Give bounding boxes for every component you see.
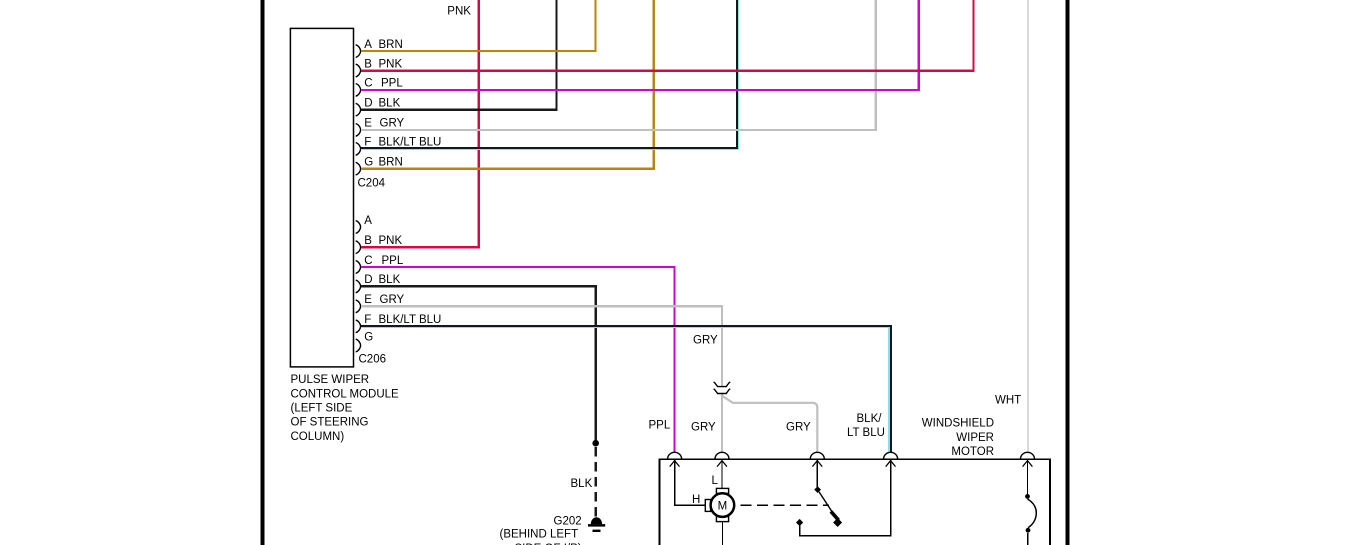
entry arrows: [670, 461, 1033, 467]
C204 pin A socket: [356, 45, 361, 58]
svg-text:WINDSHIELD: WINDSHIELD: [922, 418, 994, 430]
mechanical linkage dashed: [740, 504, 829, 506]
svg-text:F: F: [364, 137, 371, 149]
svg-text:A: A: [364, 39, 372, 51]
svg-text:G: G: [364, 332, 373, 344]
svg-text:F: F: [364, 314, 371, 326]
svg-text:BLK/LT BLU: BLK/LT BLU: [379, 314, 442, 326]
wire PPL C206-C horizontal: [361, 266, 676, 268]
svg-text:C: C: [364, 255, 372, 267]
svg-text:BLK: BLK: [379, 274, 401, 286]
C204 pin C socket: [356, 84, 361, 97]
svg-text:BRN: BRN: [379, 39, 403, 51]
svg-text:PPL: PPL: [381, 78, 403, 90]
junction dot on BLK wire: [592, 440, 599, 447]
svg-text:C: C: [364, 78, 372, 90]
wire BLK/LT BLU C206-F horizontal lt blue stripe: [361, 327, 890, 329]
svg-text:(BEHIND LEFT: (BEHIND LEFT: [500, 529, 579, 541]
svg-text:GRY: GRY: [380, 294, 405, 306]
svg-text:E: E: [364, 294, 372, 306]
dashed BLK wire to ground: [594, 447, 597, 517]
C204 wire colour labels: [379, 39, 442, 169]
ground G202 symbol: [588, 517, 605, 532]
switch fixed contact: [796, 519, 803, 526]
wire BLK/LT BLU C204-F horizontal lt blue stripe: [361, 149, 739, 151]
wire BLK/LT BLU C206-F vertical black stripe: [890, 325, 892, 452]
cam switch lower lead: [1027, 533, 1029, 545]
switch blade: [819, 492, 833, 513]
wire GRY below inline connector: [721, 394, 723, 452]
svg-text:COLUMN): COLUMN): [291, 431, 345, 443]
svg-text:PNK: PNK: [379, 58, 403, 70]
svg-text:D: D: [364, 98, 372, 110]
svg-text:GRY: GRY: [693, 334, 718, 346]
wire PNK vertical trunk to C206-B: [478, 0, 480, 247]
svg-text:PNK: PNK: [379, 235, 403, 247]
stem BLK/LT BLU to switch contact: [800, 459, 891, 536]
svg-text:GRY: GRY: [380, 118, 405, 130]
svg-text:PULSE WIPER: PULSE WIPER: [291, 374, 370, 386]
svg-text:BLK/LT BLU: BLK/LT BLU: [379, 137, 442, 149]
svg-text:H: H: [692, 494, 700, 506]
C204 pin E socket: [356, 124, 361, 137]
entry bump BLK/LT BLU: [884, 452, 898, 459]
svg-text:G: G: [364, 157, 373, 169]
C206 pin B socket: [356, 241, 361, 254]
svg-text:D: D: [364, 274, 372, 286]
entry bump GRY1: [715, 452, 729, 459]
cam switch lower dot: [1026, 528, 1031, 533]
svg-text:B: B: [364, 58, 372, 70]
wire BLK C204-D horizontal: [361, 109, 558, 111]
C206 pin C socket: [356, 261, 361, 274]
left page border: [261, 0, 265, 545]
svg-text:BRN: BRN: [379, 157, 403, 169]
svg-text:GRY: GRY: [691, 421, 716, 433]
wire BLK C206-D vertical solid segment: [595, 286, 597, 441]
svg-text:CONTROL MODULE: CONTROL MODULE: [291, 388, 400, 400]
svg-text:WHT: WHT: [995, 394, 1021, 406]
svg-text:BLK: BLK: [379, 98, 401, 110]
module caption text: [291, 374, 400, 443]
C204 pin G socket: [356, 162, 361, 175]
C204 pin letters: [364, 39, 373, 169]
motor box outline: [660, 459, 1051, 545]
svg-text:PPL: PPL: [382, 255, 404, 267]
C206 pin letters: [364, 215, 373, 344]
wire BLK/LT BLU C206-F horizontal black stripe: [361, 325, 892, 327]
svg-text:E: E: [364, 118, 372, 130]
wire BLK C204-D vertical: [555, 0, 557, 110]
svg-text:MOTOR: MOTOR: [951, 446, 994, 458]
motor M1 armature circle: [711, 493, 735, 517]
wire GRY C206-E horizontal: [361, 305, 723, 307]
wire PPL C204-C horizontal: [361, 89, 920, 91]
wire GRY branch to second motor pin: [722, 394, 817, 452]
wire BLK/LT BLU C204-F vertical black stripe: [736, 0, 738, 149]
svg-text:BLK: BLK: [571, 478, 593, 490]
pulse wiper control module box U1: [290, 28, 353, 367]
entry bump PPL: [668, 452, 682, 459]
svg-text:WIPER: WIPER: [956, 432, 994, 444]
C206 pin D socket: [356, 280, 361, 293]
wire PNK C204-B horizontal: [361, 70, 975, 72]
svg-text:OF STEERING: OF STEERING: [291, 417, 369, 429]
svg-text:C204: C204: [358, 178, 386, 190]
internal stems: [675, 459, 1028, 545]
C206 pin A socket: [356, 221, 361, 234]
motor M1 top brush: [716, 488, 728, 493]
svg-text:A: A: [364, 215, 372, 227]
C206 pin G socket: [356, 339, 361, 352]
svg-text:GRY: GRY: [786, 421, 811, 433]
switch pivot contact: [814, 486, 821, 493]
cam switch upper dot: [1025, 494, 1030, 499]
svg-text:B: B: [364, 235, 372, 247]
wire BRN C204-A vertical: [594, 0, 596, 51]
entry bump GRY2: [810, 452, 824, 459]
inline connector on GRY wire: [714, 382, 731, 394]
wire BLK/LT BLU C206-F vertical lt blue stripe: [888, 327, 890, 452]
svg-text:L: L: [712, 475, 719, 487]
C206 pin E socket: [356, 300, 361, 313]
wire BLK C206-D horizontal: [361, 285, 597, 287]
motor M1 bottom brush: [716, 517, 728, 522]
wire WHT vertical to motor: [1027, 0, 1029, 452]
wire BRN C204-A horizontal: [361, 50, 597, 52]
C206 wire colour labels: [379, 235, 442, 326]
svg-text:G202: G202: [554, 516, 582, 528]
wire BRN C204-G vertical: [653, 0, 655, 169]
svg-text:LT BLU: LT BLU: [847, 427, 885, 439]
wire GRY C206-E vertical to inline connector: [721, 306, 723, 386]
C204 pin B socket: [356, 64, 361, 77]
svg-text:(LEFT SIDE: (LEFT SIDE: [291, 403, 353, 415]
windshield wiper motor caption: [922, 418, 994, 459]
svg-text:PNK: PNK: [447, 5, 471, 17]
stem WHT to cam switch: [1027, 459, 1029, 494]
wire BRN C204-G horizontal: [361, 168, 655, 170]
C204 pin F socket: [356, 143, 361, 156]
wire BLK/LT BLU C204-F horizontal black stripe: [361, 147, 738, 149]
stem PPL to H brush: [675, 459, 706, 505]
C206 pin F socket: [356, 320, 361, 333]
svg-text:PPL: PPL: [649, 420, 671, 432]
svg-text:C206: C206: [359, 354, 387, 366]
wire PPL C206-C vertical to motor: [673, 267, 675, 452]
wire PNK C204-B vertical: [972, 0, 974, 71]
motor M1 left brush: [705, 500, 710, 512]
wire BLK/LT BLU C204-F vertical lt blue stripe: [738, 0, 740, 150]
cam switch arc: [1028, 499, 1037, 528]
wire PPL C204-C vertical: [918, 0, 920, 90]
motor common lead: [721, 522, 723, 545]
right page border: [1066, 0, 1070, 545]
stem GRY2 to switch pivot: [816, 459, 818, 487]
wire GRY C204-E vertical: [875, 0, 877, 130]
C204 pin D socket: [356, 103, 361, 116]
svg-text:M: M: [718, 500, 728, 512]
wire PNK C206-B horizontal: [361, 246, 480, 248]
stem GRY1 to L brush: [721, 459, 723, 488]
svg-text:BLK/: BLK/: [857, 413, 883, 425]
wire GRY C204-E horizontal: [361, 129, 877, 131]
entry bump WHT: [1021, 452, 1035, 459]
switch blade tip: [833, 518, 842, 527]
